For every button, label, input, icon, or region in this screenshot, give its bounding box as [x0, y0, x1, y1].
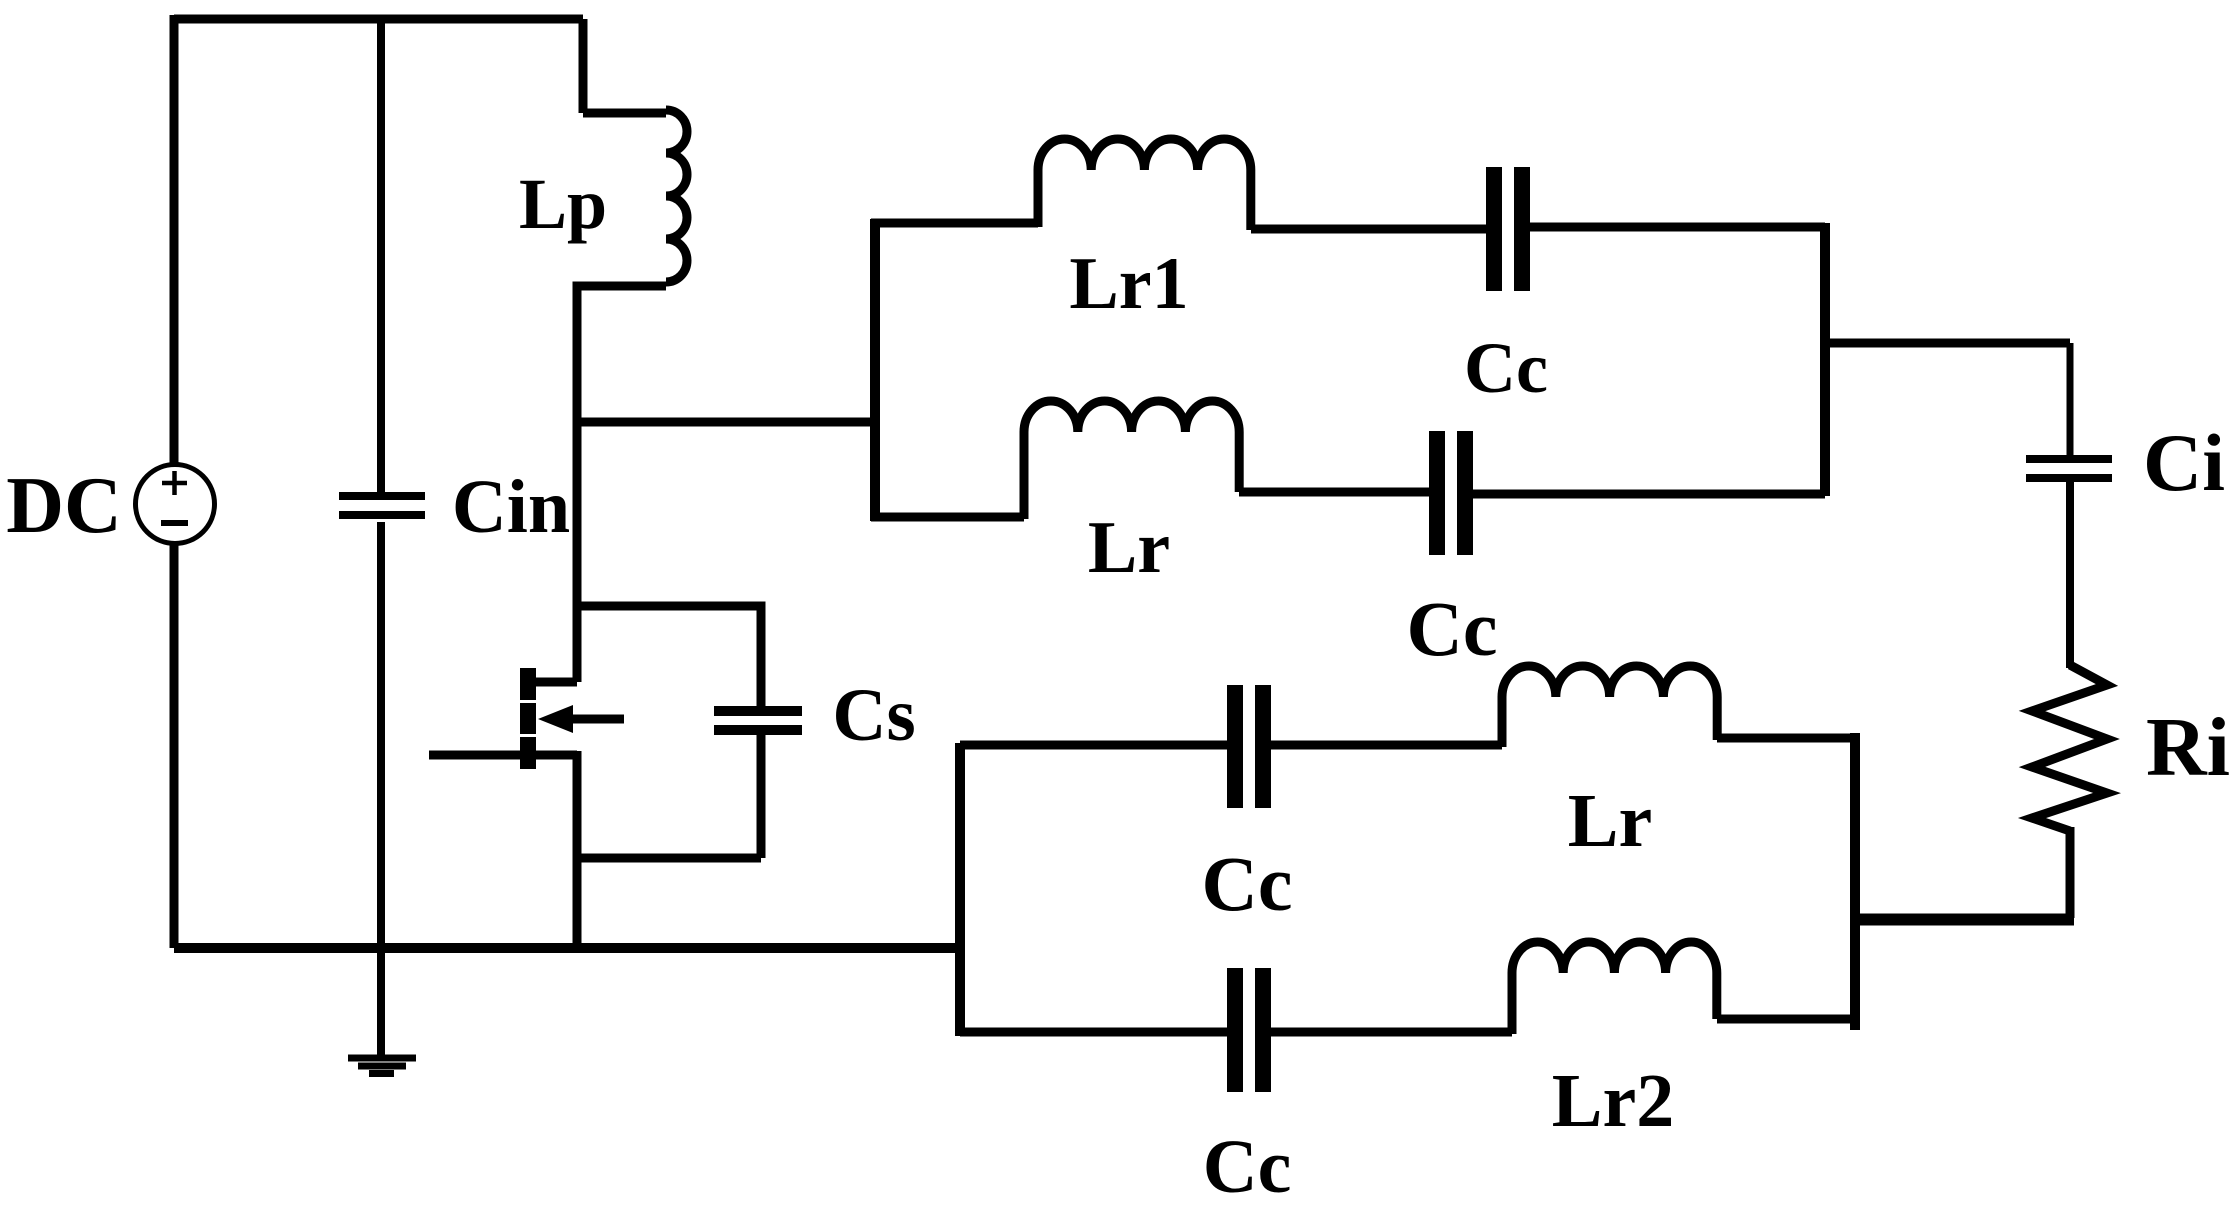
capacitor Cc top: [1486, 167, 1530, 291]
wire lower bottom branch left: [960, 1028, 1227, 1037]
capacitor Cc second: [1429, 431, 1473, 555]
wire Lp top entry: [583, 19, 666, 113]
inductor Lp: [666, 110, 687, 282]
svg-text:Cc: Cc: [1407, 585, 1498, 672]
svg-text:Cc: Cc: [1464, 328, 1548, 408]
svg-text:Lr2: Lr2: [1552, 1059, 1674, 1143]
wire output link: [1855, 917, 2074, 926]
svg-text:Ci: Ci: [2143, 417, 2225, 508]
ground: [348, 1058, 416, 1074]
wire Cin bottom lead: [377, 522, 385, 1055]
wire branch to resonant network: [577, 418, 875, 427]
wire Lr to Cc2: [1239, 488, 1430, 497]
resistor Ri: [2032, 665, 2107, 831]
svg-text:Lr: Lr: [1568, 779, 1652, 863]
wire lower section left vertical: [955, 743, 965, 1036]
inductor Lr upper: [1024, 401, 1239, 519]
wire load branch: [1825, 339, 2070, 348]
DC source V1: [136, 465, 215, 544]
wire Ci top lead: [2067, 343, 2074, 455]
inductor Lr1: [1038, 139, 1251, 230]
wire Cc to right vertical: [1530, 223, 1825, 232]
wire Ci to Ri: [2066, 479, 2074, 668]
capacitor Cin: [339, 492, 425, 519]
wire Cc4 to Lr2: [1271, 1028, 1512, 1037]
wire top rail: [174, 15, 583, 24]
capacitor Cc fourth: [1227, 968, 1271, 1092]
svg-text:Cc: Cc: [1203, 1125, 1292, 1209]
wire DC top lead: [170, 15, 179, 466]
wire drain vertical: [573, 418, 582, 682]
capacitor Cs: [714, 706, 802, 735]
wire Cs branch top: [573, 606, 761, 707]
wire top branch entry: [871, 219, 1038, 228]
wire Lr to lower-right vertical: [1717, 734, 1855, 743]
node junction vertical: [870, 219, 880, 521]
wire MOSFET body tail: [566, 715, 624, 724]
svg-text:DC: DC: [6, 462, 122, 550]
wire Cin top lead: [377, 19, 385, 495]
wire Cc2 to right vertical: [1473, 490, 1825, 499]
wire drain stub: [528, 678, 577, 687]
wire Lr2 exit: [1717, 1015, 1859, 1024]
wire Lp bottom exit: [577, 286, 666, 430]
wire source vertical: [573, 751, 582, 948]
wire DC bottom lead: [170, 542, 179, 948]
capacitor Ci: [2026, 455, 2112, 482]
wire bottom rail: [174, 943, 960, 953]
wire Lr1 to Cc: [1251, 225, 1488, 234]
wire Cc3 to Lr: [1271, 741, 1502, 750]
wire lower top branch left: [960, 741, 1227, 750]
svg-text:Lr: Lr: [1088, 507, 1170, 589]
wire gate lead and source stub: [429, 751, 577, 760]
svg-text:Ri: Ri: [2146, 701, 2230, 794]
wire lower branch entry: [871, 513, 1024, 522]
svg-text:Lr1: Lr1: [1069, 243, 1188, 325]
svg-text:Lp: Lp: [519, 164, 607, 244]
wire lower-right vertical: [1850, 733, 1860, 1030]
wire Ri bottom: [1855, 827, 2074, 918]
wire right vertical: [1820, 223, 1830, 496]
inductor Lr lower: [1502, 666, 1717, 747]
svg-text:Cin: Cin: [452, 465, 570, 549]
svg-text:Cs: Cs: [832, 674, 915, 757]
transistor Q1 (MOSFET): [520, 668, 573, 769]
inductor Lr2: [1512, 942, 1717, 1034]
svg-text:Cc: Cc: [1202, 840, 1293, 927]
wire Cs bottom loop: [577, 732, 761, 858]
capacitor Cc third: [1227, 685, 1271, 808]
